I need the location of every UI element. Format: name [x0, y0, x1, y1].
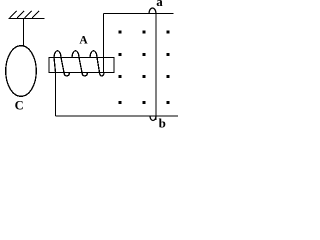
field dots row 2 [119, 53, 122, 56]
object C (ellipse) [6, 46, 37, 97]
top sliding hook [149, 8, 156, 14]
bottom rail wire [56, 115, 179, 117]
left lead wire [54, 58, 56, 117]
ceiling hatch 3 [25, 11, 32, 18]
ceiling [9, 18, 45, 20]
svg-text:b: b [159, 116, 166, 131]
svg-text:C: C [15, 99, 24, 113]
coil core [49, 58, 114, 73]
ceiling hatch 4 [32, 11, 39, 18]
svg-text:a: a [156, 0, 163, 9]
svg-text:A: A [79, 35, 88, 47]
coil winding 2 [72, 51, 88, 76]
ceiling hatch 2 [17, 11, 24, 18]
field dots row 4 [119, 101, 122, 104]
bottom sliding hook [150, 116, 156, 121]
field dots row 1 [119, 30, 122, 33]
ceiling hatch 1 [10, 11, 17, 18]
right lead wire [103, 14, 105, 73]
coil winding 1 [54, 51, 70, 76]
coil winding 3 [90, 51, 104, 76]
string [23, 19, 25, 46]
rod ab [155, 14, 157, 121]
field dots row 3 [119, 75, 122, 78]
top rail wire [104, 13, 174, 15]
